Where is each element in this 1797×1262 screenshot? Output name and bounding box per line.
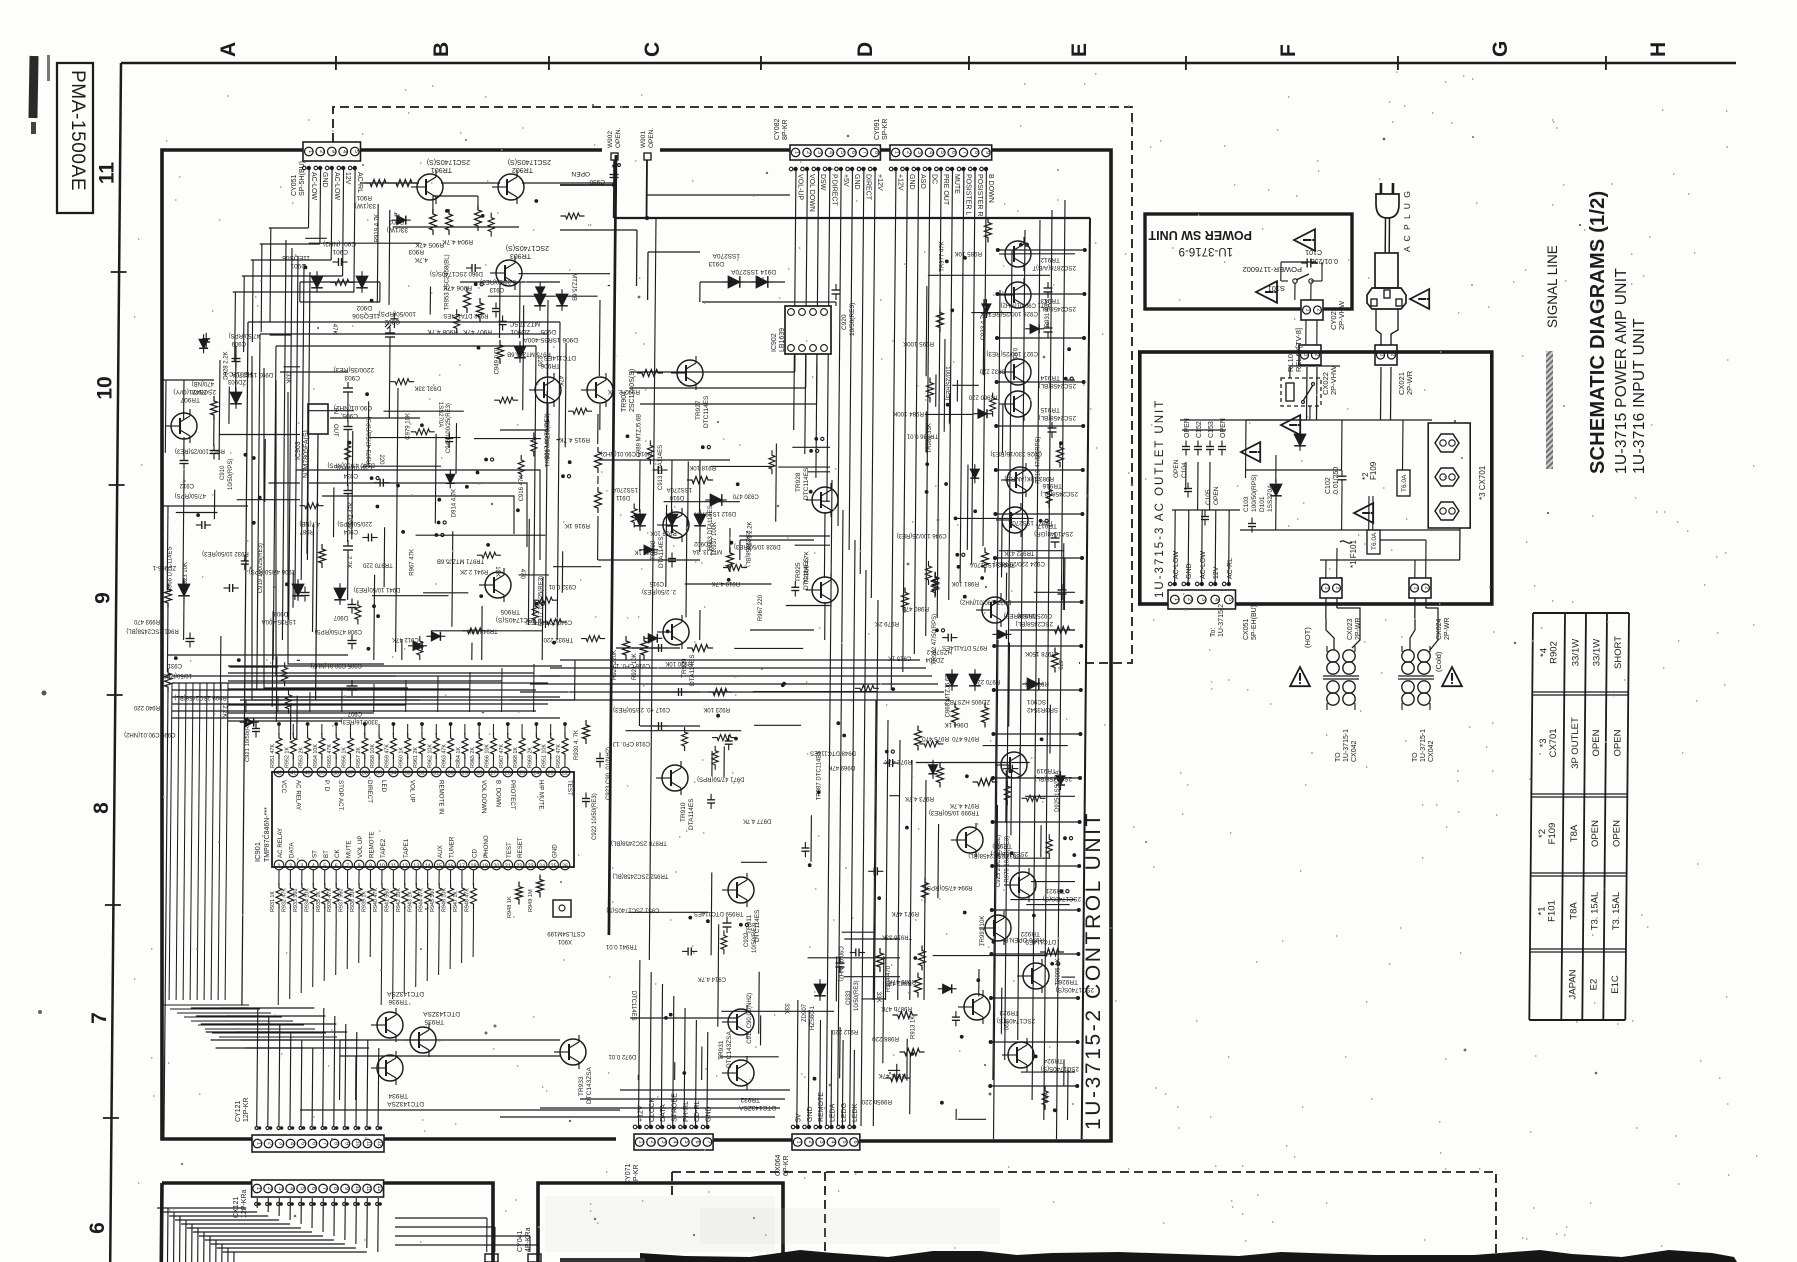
svg-text:DSW: DSW <box>819 174 826 191</box>
transistor TR913 2SC2458(BL) <box>1005 282 1031 308</box>
capacitor C926 <box>1048 427 1057 429</box>
wire <box>219 434 300 436</box>
resistor R991 47K <box>900 1049 925 1056</box>
left long verticals <box>169 683 172 1000</box>
svg-text:D913: D913 <box>708 260 724 267</box>
wire <box>792 446 830 448</box>
svg-text:C999 C90.01(NH2): C999 C90.01(NH2) <box>124 731 175 737</box>
svg-text:10: 10 <box>355 1140 361 1146</box>
svg-text:R935 1K: R935 1K <box>316 891 322 912</box>
svg-text:*1 F101: *1 F101 <box>1349 539 1358 568</box>
wire <box>541 577 544 660</box>
svg-text:R916 1K: R916 1K <box>564 522 590 529</box>
svg-text:VOL UP: VOL UP <box>357 836 364 858</box>
svg-text:R967 47K: R967 47K <box>409 549 415 576</box>
warning triangle outlet 2 <box>1281 415 1300 435</box>
svg-text:C910: C910 <box>220 465 226 480</box>
svg-text:1U-3715-1: 1U-3715-1 <box>1420 729 1427 762</box>
wire <box>1062 976 1075 978</box>
svg-text:1: 1 <box>1303 353 1309 356</box>
svg-text:R973 4.7K: R973 4.7K <box>904 795 934 802</box>
svg-text:TR935: TR935 <box>424 1018 444 1025</box>
junction <box>626 434 630 438</box>
svg-text:AUX: AUX <box>437 845 444 858</box>
junction node <box>935 628 939 632</box>
junction <box>420 423 424 427</box>
svg-text:2: 2 <box>1186 598 1192 601</box>
resistor R920 10K <box>687 645 713 652</box>
wire net around TR93x <box>340 1039 560 1041</box>
wire <box>775 444 778 522</box>
svg-text:100/50(RPS): 100/50(RPS) <box>378 310 416 317</box>
resistor R916 1K <box>595 487 602 513</box>
svg-text:R969 2K: R969 2K <box>527 747 533 768</box>
svg-text:OPEN: OPEN <box>1612 729 1623 756</box>
svg-text:4: 4 <box>312 864 315 870</box>
svg-text:R993 470: R993 470 <box>133 618 160 624</box>
junction node <box>955 553 959 557</box>
svg-text:12V: 12V <box>344 172 351 185</box>
transistor TR907 2SC3421 <box>171 413 197 439</box>
svg-text:R974 4.7K: R974 4.7K <box>949 802 979 809</box>
svg-text:R948 1K: R948 1K <box>507 896 513 918</box>
svg-text:4P-KRa: 4P-KRa <box>525 1227 532 1252</box>
junction <box>348 441 352 445</box>
capacitor C918 CF0.1J <box>658 722 660 730</box>
svg-text:1U-3715 POWER AMP UNIT: 1U-3715 POWER AMP UNIT <box>1613 268 1630 474</box>
svg-text:11EQS06: 11EQS06 <box>352 312 380 319</box>
wire <box>1040 825 1042 857</box>
transistor TR903 <box>496 260 522 286</box>
capacitor C912 47/50(RPS) <box>180 460 189 462</box>
junction <box>365 392 369 396</box>
svg-text:R988 220: R988 220 <box>872 1035 899 1042</box>
junction <box>682 1071 686 1075</box>
svg-text:100/50(RPS): 100/50(RPS) <box>1251 474 1258 512</box>
svg-text:R995b 220: R995b 220 <box>861 1098 892 1105</box>
svg-text:TR977 47K: TR977 47K <box>939 241 945 271</box>
svg-text:T6.0A: T6.0A <box>1401 474 1408 492</box>
junction <box>1010 851 1014 855</box>
wire <box>434 434 437 524</box>
svg-text:R947 1K: R947 1K <box>453 891 459 912</box>
svg-text:36: 36 <box>362 771 368 777</box>
wire <box>935 375 937 407</box>
svg-text:1: 1 <box>796 1140 802 1143</box>
svg-text:33K: 33K <box>783 1003 789 1014</box>
svg-text:TR991 10K: TR991 10K <box>980 916 986 946</box>
svg-text:1U-3715-3 AC OUTLET UNIT: 1U-3715-3 AC OUTLET UNIT <box>1154 399 1166 598</box>
svg-text:2SC1740S(S): 2SC1740S(S) <box>508 158 551 165</box>
capacitor C935 <box>471 264 473 272</box>
svg-text:R956 1K: R956 1K <box>342 747 348 768</box>
svg-text:33/1W: 33/1W <box>1592 639 1603 666</box>
capacitor C923 <box>596 758 604 760</box>
svg-text:1: 1 <box>255 1187 261 1190</box>
IC901 bottom pins <box>274 860 284 870</box>
capacitor C940 <box>499 320 507 322</box>
svg-text:PMA-1500AE: PMA-1500AE <box>67 70 88 191</box>
wire junction heavy <box>560 184 614 186</box>
svg-text:0.01: 0.01 <box>1011 348 1017 360</box>
svg-text:37: 37 <box>348 771 354 777</box>
resistor R919 4.7K <box>727 548 734 572</box>
svg-text:B. DOWN: B. DOWN <box>495 780 502 807</box>
wires CX023 CX024 to transformers <box>1325 598 1327 618</box>
diode D932 <box>644 545 653 554</box>
wire <box>309 410 354 412</box>
warning triangle power sw 2 <box>1256 281 1277 303</box>
svg-text:1U-3716 INPUT UNIT: 1U-3716 INPUT UNIT <box>1631 318 1648 474</box>
svg-text:CY121: CY121 <box>235 1100 242 1122</box>
diode D936 <box>978 409 987 418</box>
wire <box>333 487 335 537</box>
resistor R978 150K <box>1050 627 1075 634</box>
diode D922 <box>997 630 1006 639</box>
svg-text:7: 7 <box>321 1187 327 1190</box>
svg-text:D101: D101 <box>1259 496 1266 512</box>
svg-text:TR919: TR919 <box>1036 767 1056 774</box>
diode D911 1SS270A <box>634 514 646 526</box>
svg-text:SIGNAL LINE: SIGNAL LINE <box>1545 245 1560 328</box>
junction <box>957 565 961 569</box>
svg-text:CX042: CX042 <box>1351 740 1358 762</box>
wire <box>228 387 230 424</box>
svg-text:47K: 47K <box>557 376 563 387</box>
bus wires CY071 up <box>639 960 640 1126</box>
junction <box>304 266 308 270</box>
wire <box>367 401 370 465</box>
svg-text:9: 9 <box>343 1187 349 1190</box>
resistor R949 1M <box>537 875 544 898</box>
junction <box>782 682 786 686</box>
capacitor C921 <box>252 728 260 730</box>
svg-text:D977 4.7K: D977 4.7K <box>743 818 771 824</box>
junction <box>730 541 734 545</box>
svg-text:C932: C932 <box>744 932 750 947</box>
svg-text:2: 2 <box>805 151 811 154</box>
svg-text:R937 560: R937 560 <box>339 889 345 912</box>
svg-text:5: 5 <box>683 1140 689 1143</box>
junction <box>372 604 376 608</box>
svg-text:VCC: VCC <box>280 780 287 794</box>
svg-text:CK: CK <box>334 849 341 858</box>
junction <box>688 916 692 920</box>
svg-text:5: 5 <box>939 151 945 154</box>
svg-text:R954 10K: R954 10K <box>313 744 319 768</box>
wire <box>1063 558 1066 611</box>
power rail wires left section <box>242 322 248 1005</box>
resistor R986 47K <box>919 946 926 971</box>
wire horizontals left of MCU <box>172 675 560 677</box>
svg-text:C937 2SC2458(BL): C937 2SC2458(BL) <box>968 852 1020 858</box>
junction <box>809 490 813 494</box>
svg-text:C942 47K: C942 47K <box>349 502 355 529</box>
resistor R902 33(1W) <box>391 180 417 187</box>
capacitor C902 <box>379 479 381 487</box>
svg-text:AC-LOW: AC-LOW <box>333 172 340 200</box>
svg-text:R973 47/50(RPS): R973 47/50(RPS) <box>367 417 373 464</box>
svg-text:20: 20 <box>493 864 499 870</box>
resistor R942 <box>561 213 585 219</box>
svg-text:C923 2SC2458(BL): C923 2SC2458(BL) <box>996 835 1002 887</box>
svg-text:R952 1K: R952 1K <box>284 747 290 768</box>
wires below resistor bank <box>277 918 280 1005</box>
svg-text:1: 1 <box>1305 308 1311 311</box>
svg-text:2. 2/50(RE3): 2. 2/50(RE3) <box>642 588 676 594</box>
svg-text:R931 1K: R931 1K <box>270 891 276 912</box>
junction <box>479 594 483 598</box>
junction <box>486 543 490 547</box>
junction <box>905 826 909 830</box>
svg-text:R901: R901 <box>356 194 372 201</box>
svg-text:8: 8 <box>873 151 879 154</box>
svg-text:12P-KRa: 12P-KRa <box>241 1189 248 1218</box>
svg-text:C946 100/25(RE3): C946 100/25(RE3) <box>446 403 452 453</box>
wire <box>628 911 708 913</box>
resistor R909 <box>390 379 414 385</box>
svg-text:R932 10/50(RE3): R932 10/50(RE3) <box>202 550 249 556</box>
svg-text:C913 DTA114ES: C913 DTA114ES <box>658 445 664 490</box>
junction <box>1067 347 1071 351</box>
svg-text:R919 4.7K: R919 4.7K <box>712 580 740 586</box>
resistor R987b 47K <box>915 973 922 998</box>
svg-text:IC901: IC901 <box>253 842 262 862</box>
wires diode bridge <box>300 281 380 283</box>
svg-text:11: 11 <box>96 162 119 185</box>
junction node <box>1063 836 1067 840</box>
svg-text:R918 10K: R918 10K <box>689 464 716 470</box>
wires switch to CY022 <box>1294 283 1296 300</box>
wire <box>219 636 222 691</box>
svg-text:R999 2SC2458(BL): R999 2SC2458(BL) <box>174 694 226 700</box>
svg-text:1: 1 <box>278 864 281 870</box>
svg-text:9: 9 <box>92 592 115 604</box>
svg-text:2P-WR: 2P-WR <box>1405 370 1414 395</box>
wire IC903 column <box>316 434 318 700</box>
svg-text:D908: D908 <box>273 610 288 616</box>
capacitor C907 <box>947 634 949 642</box>
diode D910 1SS270A <box>666 514 678 526</box>
transistor TR912 2SC2878(A/B)T <box>1005 241 1031 267</box>
svg-text:R936 47K: R936 47K <box>327 888 333 912</box>
svg-text:1SS270A: 1SS270A <box>613 486 638 492</box>
bottom unit box right <box>538 1183 783 1262</box>
resistor R940 220 <box>165 668 172 692</box>
resistor R907 47K <box>497 340 504 364</box>
transistor TR934 DTC143ZSA <box>377 1055 403 1081</box>
wire <box>786 605 830 607</box>
wire <box>711 751 713 776</box>
svg-text:6: 6 <box>694 1140 700 1143</box>
resistor R950 <box>990 393 996 417</box>
resistor R932 <box>533 597 557 603</box>
wire <box>741 861 767 863</box>
svg-text:10: 10 <box>94 376 117 399</box>
wires IC901 top to bus <box>245 700 247 712</box>
svg-text:C979 10K: C979 10K <box>406 413 412 440</box>
junction node <box>1050 962 1054 966</box>
svg-text:IC902: IC902 <box>771 333 778 352</box>
svg-text:+12V: +12V <box>897 174 904 191</box>
power sw unit box <box>1145 214 1352 309</box>
svg-text:9: 9 <box>984 151 990 154</box>
svg-text:33: 33 <box>405 771 411 777</box>
warning triangle power sw <box>1294 229 1315 251</box>
junction <box>976 978 980 982</box>
wire <box>999 550 1065 552</box>
diode D901 11EQS06 <box>311 276 323 288</box>
wire <box>369 437 460 439</box>
transistor TR935 DTC143ZSA <box>410 1027 436 1053</box>
svg-text:R932 DTA114ES: R932 DTA114ES <box>443 312 488 318</box>
junction <box>891 687 895 691</box>
svg-text:R982 470: R982 470 <box>885 979 912 985</box>
svg-text:E: E <box>1068 43 1091 57</box>
svg-text:C966 DTC114ES: C966 DTC114ES <box>168 546 174 592</box>
svg-text:R964 1K: R964 1K <box>456 747 462 768</box>
svg-text:5: 5 <box>841 1140 847 1143</box>
capacitor C927 <box>1044 327 1053 329</box>
capacitor C928 <box>1044 287 1053 289</box>
capacitor C922 <box>582 798 590 800</box>
svg-text:4: 4 <box>672 1140 678 1143</box>
wire <box>687 461 690 526</box>
bus wires CY082 <box>794 167 796 430</box>
svg-text:2SC2458(BL): 2SC2458(BL) <box>1039 382 1077 389</box>
junction <box>965 774 969 778</box>
svg-text:R907 47K: R907 47K <box>462 328 492 335</box>
svg-text:MUTE: MUTE <box>346 840 353 858</box>
junction <box>992 940 996 944</box>
svg-text:C931: C931 <box>167 662 182 668</box>
svg-text:2P-VHW: 2P-VHW <box>1329 365 1338 395</box>
svg-text:GND: GND <box>1186 563 1193 579</box>
svg-text:1U-3715-1: 1U-3715-1 <box>1343 729 1350 762</box>
svg-text:PROTECT: PROTECT <box>509 780 516 810</box>
svg-text:H/P MUTE.: H/P MUTE. <box>537 780 544 811</box>
svg-text:TR941 0.01: TR941 0.01 <box>605 943 637 949</box>
junction <box>950 308 954 312</box>
wire <box>844 938 900 940</box>
zener ZD906 <box>178 584 190 596</box>
wire <box>710 873 713 956</box>
capacitor C988 <box>367 534 369 542</box>
connector CX021 2P-WR <box>1375 345 1397 365</box>
wire <box>1034 591 1075 593</box>
svg-text:R949 1M: R949 1M <box>528 889 534 912</box>
svg-text:D969 47K: D969 47K <box>828 764 855 770</box>
ac outlet unit box <box>1140 352 1492 604</box>
zener ZD903 HZS12C <box>230 392 242 404</box>
junction <box>980 576 984 580</box>
resistor R990 OPEN.R <box>1040 949 1064 956</box>
svg-text:GND: GND <box>908 174 915 190</box>
svg-text:DTA114ES: DTA114ES <box>689 654 696 686</box>
svg-text:5: 5 <box>300 1142 306 1145</box>
pin labels CY051 <box>302 166 306 170</box>
wire <box>176 512 218 514</box>
svg-text:5: 5 <box>323 864 326 870</box>
wire trunk C vertical bundle mid <box>826 480 832 1126</box>
svg-text:C930 470: C930 470 <box>732 493 759 499</box>
relay RL101 <box>1281 378 1321 406</box>
svg-text:+5V: +5V <box>842 174 849 187</box>
wires around IC902 <box>700 281 785 283</box>
capacitor C919 <box>201 521 203 529</box>
plug cord double line <box>1384 218 1386 253</box>
diode D939 <box>413 641 422 650</box>
svg-text:R985 10K: R985 10K <box>954 250 982 257</box>
resistor R981 10K <box>982 548 989 573</box>
resistor R905 47K <box>446 209 453 235</box>
wire <box>393 226 519 228</box>
svg-text:12: 12 <box>376 1185 382 1191</box>
wire <box>758 972 761 1034</box>
svg-text:TR902: TR902 <box>512 166 533 173</box>
svg-text:23: 23 <box>528 864 534 870</box>
svg-text:1SS270A: 1SS270A <box>437 402 443 427</box>
svg-text:2: 2 <box>649 1140 655 1143</box>
capacitor C907 3300/16(RE3) <box>347 685 358 687</box>
svg-text:C915 1K: C915 1K <box>888 655 911 661</box>
diode D913 1SS270A <box>728 276 740 288</box>
wire <box>1063 1059 1065 1086</box>
svg-text:C923 C90. 01(NH2): C923 C90. 01(NH2) <box>606 747 612 800</box>
svg-text:2: 2 <box>1316 308 1322 311</box>
svg-text:C101: C101 <box>1305 248 1322 255</box>
diode D907 <box>334 588 346 600</box>
wire <box>269 482 301 484</box>
resistor bank above IC901 R951-R969 <box>276 733 282 759</box>
resistor R970 <box>1004 781 1010 805</box>
junction <box>1053 1108 1057 1112</box>
svg-text:R952 47K: R952 47K <box>556 744 562 768</box>
net lines from resistor bank tops <box>240 699 575 701</box>
svg-text:6: 6 <box>335 864 338 870</box>
diode D983 <box>970 469 979 478</box>
wires CY051 drop bundle <box>282 240 286 640</box>
svg-text:12V: 12V <box>1213 566 1220 579</box>
svg-text:220: 220 <box>1002 1020 1008 1031</box>
svg-text:SP-KR: SP-KR <box>882 119 889 140</box>
svg-text:1U-3715-2: 1U-3715-2 <box>1218 604 1225 637</box>
junction node <box>739 923 743 927</box>
junction <box>666 630 670 634</box>
svg-text:15: 15 <box>436 864 442 870</box>
svg-text:LB1639: LB1639 <box>779 328 786 352</box>
AC plug body <box>1376 194 1399 218</box>
svg-text:CY082: CY082 <box>774 118 781 140</box>
junction <box>706 919 710 923</box>
svg-text:TR934: TR934 <box>388 1092 408 1099</box>
wires inside ac outlet unit <box>1174 510 1177 585</box>
transistor TR904 <box>587 377 613 403</box>
svg-text:POWER SW UNIT: POWER SW UNIT <box>1148 228 1252 242</box>
svg-text:1: 1 <box>1413 586 1419 589</box>
svg-text:R939 1K: R939 1K <box>362 891 368 912</box>
svg-text:R975 MTZJ5.6B: R975 MTZJ5.6B <box>507 351 551 357</box>
svg-text:TMP87C846N-***: TMP87C846N-*** <box>264 807 271 862</box>
svg-text:10/50(RE3): 10/50(RE3) <box>849 303 856 336</box>
transistor TR911 DTC114ES <box>728 877 754 903</box>
svg-text:OPEN: OPEN <box>1220 418 1227 438</box>
wire <box>384 410 464 412</box>
svg-text:D906 1SR35-400A: D906 1SR35-400A <box>523 336 578 343</box>
transistor TR908 DTA114ES <box>663 512 689 538</box>
svg-text:R955 47K: R955 47K <box>327 744 333 768</box>
wire <box>546 391 548 425</box>
